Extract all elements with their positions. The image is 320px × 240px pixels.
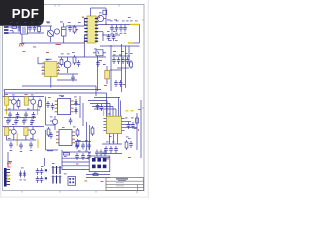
wire rail — [136, 113, 138, 150]
capacitor C53 — [99, 150, 103, 157]
transistor Q3 — [31, 99, 36, 104]
label — [8, 137, 11, 140]
capacitor C2 — [68, 25, 72, 32]
label (red) — [123, 83, 126, 86]
capacitor C24 — [24, 112, 28, 119]
capacitor C31 — [22, 118, 26, 125]
capacitor CY1 — [33, 25, 37, 32]
label (red) — [76, 28, 79, 31]
transistor Q1 (MOSFET) — [64, 61, 71, 68]
label — [64, 155, 67, 158]
capacitor C39 — [104, 146, 108, 153]
highlighted wire (yellow) — [103, 106, 105, 117]
label — [46, 21, 50, 24]
wire — [44, 25, 52, 27]
frame tick top b — [58, 4, 60, 6]
label — [31, 94, 34, 97]
wire — [90, 103, 110, 105]
diode D9 — [19, 171, 22, 178]
label — [47, 22, 50, 25]
label (red) — [25, 93, 28, 96]
wire — [28, 25, 45, 27]
label — [30, 123, 33, 126]
bus wire — [5, 92, 107, 94]
ic U1 pins left — [42, 64, 45, 74]
label (red) — [138, 129, 139, 130]
capacitor C21 — [119, 80, 123, 87]
label — [125, 117, 128, 120]
capacitor C13 — [123, 25, 127, 32]
diode D5 — [74, 99, 77, 106]
frame tick right b — [142, 107, 144, 109]
ground — [20, 151, 23, 153]
capacitor C5 — [77, 60, 81, 67]
label — [106, 141, 109, 144]
capacitor C26 — [46, 101, 50, 108]
label — [116, 20, 119, 23]
label — [12, 123, 15, 126]
ic U1 label — [46, 58, 52, 61]
label — [27, 108, 30, 111]
resistor R19 — [47, 127, 50, 137]
label — [119, 54, 122, 57]
label — [61, 53, 64, 56]
capacitor C43 — [75, 143, 79, 150]
varistor RV1 — [54, 29, 59, 34]
label — [108, 113, 111, 116]
capacitor C54 — [103, 150, 107, 157]
connector J1 (AC inlet) — [4, 27, 9, 33]
diode D12 — [45, 177, 47, 179]
label — [126, 20, 129, 23]
ic U6 body — [58, 99, 71, 115]
label — [85, 150, 88, 153]
wire — [10, 30, 13, 32]
ground — [30, 150, 33, 152]
label — [107, 19, 111, 22]
title block line — [106, 186, 144, 188]
highlighted wire (yellow) — [37, 139, 39, 148]
wire — [139, 25, 141, 44]
label — [41, 165, 44, 168]
label — [10, 21, 13, 24]
wire — [58, 56, 106, 58]
ic U9 label — [47, 149, 53, 152]
label — [31, 22, 34, 25]
highlighted wire (yellow) — [16, 133, 18, 146]
label — [21, 167, 24, 170]
wire — [50, 77, 52, 88]
label (red) — [101, 180, 104, 183]
resistor R14 — [76, 139, 79, 148]
wire — [86, 122, 88, 150]
label — [135, 20, 138, 23]
capacitor C28 — [69, 118, 73, 125]
svg-text:PDF: PDF — [12, 6, 39, 21]
header P1 — [52, 166, 62, 174]
label (red) — [128, 156, 131, 159]
wire — [46, 124, 56, 126]
title block divider — [137, 184, 139, 190]
transformer T1 secondary winding — [95, 19, 98, 42]
capacitor C11 — [115, 25, 119, 32]
label — [121, 50, 124, 53]
wire — [95, 86, 97, 96]
highlighted wire (yellow) — [130, 24, 140, 26]
diode D10 — [23, 171, 26, 178]
ic U1 pin numbers (red) — [43, 62, 60, 73]
capacitor C27 — [51, 103, 55, 110]
ground — [120, 32, 123, 34]
wire — [57, 79, 77, 81]
highlighted tick (yellow) — [131, 110, 134, 112]
label — [122, 20, 125, 23]
wire rail — [140, 100, 142, 158]
label (red) — [46, 51, 49, 54]
label (red) — [56, 43, 59, 46]
wire — [94, 157, 110, 159]
wire — [125, 127, 137, 129]
connector block outline — [89, 156, 110, 172]
capacitor C48 — [87, 153, 91, 160]
capacitor C50 — [96, 103, 100, 110]
label (red) — [8, 166, 11, 169]
label — [134, 127, 137, 130]
capacitor C12 — [119, 25, 123, 32]
label — [78, 150, 81, 153]
page right edge — [148, 0, 149, 198]
polarity dot (red) — [99, 16, 101, 18]
capacitor C58 — [40, 176, 44, 183]
wire — [83, 43, 85, 57]
label — [24, 21, 27, 24]
label — [109, 39, 112, 42]
capacitor C29 — [6, 118, 10, 125]
label (red) — [104, 84, 107, 87]
diode D2 (snubber) — [103, 10, 107, 14]
page background — [0, 0, 149, 198]
wire — [5, 109, 41, 111]
label (red) — [33, 46, 36, 49]
capacitor C37 — [127, 122, 131, 129]
capacitor C33 — [9, 142, 13, 149]
page left edge — [0, 0, 1, 198]
diode D11 — [45, 169, 47, 171]
frame tick bottom a — [21, 191, 23, 193]
ic U1 (PWM) body — [45, 62, 57, 77]
resistor R6 — [73, 55, 76, 65]
ic U5 (shunt ref, yellow) — [24, 97, 28, 106]
ic U6 label — [59, 94, 64, 97]
label — [99, 59, 102, 62]
label — [103, 63, 106, 66]
label — [20, 179, 22, 182]
ic U1 pins right — [57, 64, 60, 74]
bus wire — [62, 161, 89, 163]
label — [50, 116, 53, 119]
resistor R11 — [17, 99, 20, 109]
wire — [28, 32, 45, 34]
junction (red) — [95, 89, 96, 90]
ground — [9, 119, 12, 121]
label — [130, 20, 133, 23]
wire — [97, 56, 99, 91]
capacitor C23 — [16, 112, 20, 119]
ground — [25, 119, 28, 121]
wire — [3, 126, 44, 128]
resistor R18 (horizontal) — [64, 153, 70, 155]
wire — [3, 96, 44, 98]
highlighted wire (yellow) — [5, 105, 7, 114]
capacitor C25 — [32, 112, 36, 119]
capacitor C42 — [129, 141, 133, 148]
wire — [60, 73, 78, 75]
bus wire — [62, 157, 89, 159]
wire — [7, 139, 37, 141]
resistor R13 — [76, 128, 79, 137]
wire — [66, 25, 84, 27]
label — [128, 16, 131, 19]
ground — [115, 32, 118, 34]
ground — [111, 32, 114, 34]
highlighted wire (yellow) — [128, 42, 134, 44]
title block outer — [106, 178, 144, 191]
resistor R15 — [136, 116, 139, 125]
frame tick top a — [54, 4, 56, 6]
wire — [92, 106, 113, 108]
capacitor C49 — [96, 60, 100, 67]
connector J2 body — [4, 168, 7, 187]
label — [68, 21, 71, 24]
bus wire — [5, 89, 102, 91]
capacitor C46 — [75, 153, 79, 160]
wire rail — [125, 46, 127, 88]
capacitor C41 — [114, 146, 118, 153]
label — [130, 52, 133, 55]
label — [39, 21, 42, 24]
wire — [120, 101, 122, 117]
ic U6 pins left — [55, 101, 58, 112]
wire — [125, 121, 131, 123]
wire — [82, 103, 84, 126]
capacitor C38 — [131, 122, 135, 129]
ground — [16, 120, 19, 122]
wire — [105, 15, 107, 25]
wire — [112, 55, 130, 57]
label — [30, 137, 33, 140]
capacitor C32 — [30, 118, 34, 125]
wire — [112, 107, 114, 117]
label — [85, 139, 88, 142]
label — [107, 30, 110, 33]
highlighted tick (yellow) — [126, 110, 129, 112]
transistor Q6 — [31, 129, 36, 134]
bus wire — [22, 85, 96, 87]
wire — [44, 158, 46, 166]
capacitor C14 — [107, 34, 111, 41]
resistor R10 — [130, 60, 133, 69]
wire — [25, 136, 27, 140]
polarity dot (red) — [82, 16, 84, 18]
capacitor C18 — [121, 57, 125, 64]
diode D6 — [74, 107, 77, 114]
wire — [103, 34, 120, 36]
connector J2 terminals (yellow) — [7, 174, 12, 177]
title row text — [116, 181, 124, 184]
capacitor C34 — [19, 143, 23, 150]
label — [131, 117, 134, 120]
bus wire — [62, 165, 89, 167]
capacitor C45 — [87, 143, 91, 150]
capacitor C40 — [109, 146, 113, 153]
wire — [9, 32, 21, 34]
wire — [110, 45, 112, 91]
header P2 — [52, 176, 62, 184]
ic U8 (yellow) — [24, 127, 28, 136]
fuse F1 — [12, 26, 17, 29]
capacitor C16 — [112, 57, 116, 64]
frame tick bottom c — [95, 191, 97, 193]
ic U4 (shunt ref, yellow) — [5, 97, 9, 106]
resistor R17 (horizontal) — [93, 174, 98, 176]
wire rail — [121, 44, 123, 92]
wire — [106, 101, 108, 117]
capacitor C57 — [36, 176, 40, 183]
wire — [117, 67, 129, 69]
wire — [9, 26, 13, 28]
wire — [83, 35, 85, 43]
transformer T1 core — [87, 16, 96, 43]
label — [46, 59, 49, 62]
frame tick right a — [142, 19, 144, 21]
label (red) — [106, 158, 109, 161]
wire — [94, 97, 120, 99]
frame tick left a — [3, 89, 5, 91]
capacitor C1 (bulk) — [62, 23, 67, 43]
bus wire — [62, 169, 89, 171]
wire rail — [128, 46, 130, 66]
highlighted wire (yellow) — [37, 104, 39, 115]
label (red) — [23, 50, 26, 53]
label — [48, 96, 51, 99]
label — [52, 162, 55, 165]
label — [94, 48, 97, 51]
part X1 (bridge) — [68, 177, 76, 186]
transistor Q5 — [11, 129, 16, 134]
wire — [4, 90, 6, 97]
wire — [105, 8, 107, 15]
capacitor C20 — [114, 80, 118, 87]
label — [126, 136, 129, 139]
wire — [21, 34, 23, 43]
capacitor C47 — [81, 153, 85, 160]
capacitor CX2 — [28, 25, 32, 32]
wire — [118, 98, 120, 117]
wire — [117, 134, 119, 144]
label — [99, 12, 102, 15]
wire — [83, 19, 85, 27]
wire — [75, 151, 91, 153]
label (red) — [85, 180, 88, 183]
junction (red) — [76, 29, 77, 30]
ground — [124, 32, 127, 34]
wire — [100, 45, 140, 47]
resistor R5 — [60, 58, 63, 67]
wire — [109, 134, 111, 144]
wire — [75, 141, 91, 143]
ic U10 (controller, yellow) body — [106, 116, 121, 133]
wire — [109, 104, 111, 117]
label — [128, 137, 131, 140]
label — [78, 21, 81, 24]
wire — [17, 26, 21, 28]
label (red) — [58, 43, 61, 46]
wire — [113, 134, 115, 144]
transistor Q2 — [11, 99, 16, 104]
wire — [90, 8, 92, 16]
connector J2 pins — [7, 170, 10, 185]
label — [8, 108, 11, 111]
wire — [134, 42, 140, 44]
wire — [74, 104, 80, 106]
label — [110, 20, 113, 23]
wire — [88, 100, 107, 102]
capacitor C56 — [40, 168, 44, 175]
wire — [86, 177, 110, 179]
capacitor C17 — [117, 57, 121, 64]
label — [138, 108, 141, 111]
resistor R1 — [38, 25, 41, 34]
label — [113, 50, 116, 53]
title block line — [106, 180, 144, 182]
wire — [98, 31, 103, 33]
capacitor C36 — [49, 132, 53, 139]
label — [24, 179, 26, 182]
label — [112, 141, 115, 144]
pdf badge — [0, 0, 44, 26]
label — [109, 135, 112, 138]
label — [113, 54, 116, 57]
resistor R2 — [73, 25, 76, 34]
wire — [38, 63, 42, 65]
chassis ground (red) — [7, 162, 12, 165]
label — [72, 51, 75, 54]
wire — [61, 150, 63, 170]
chassis ground (red) — [19, 44, 25, 47]
capacitor CX1 — [18, 26, 19, 32]
wire — [106, 93, 108, 116]
capacitor C51 — [100, 104, 104, 111]
ic U9 pins left — [56, 132, 59, 143]
wire — [89, 125, 91, 150]
capacitor C55 — [36, 168, 40, 175]
ground — [32, 120, 35, 122]
capacitor C6 — [71, 75, 75, 82]
ic U6 pins right — [71, 101, 74, 112]
label (red) — [86, 157, 89, 160]
page bottom edge — [0, 197, 149, 199]
diode D1 (output) — [97, 15, 103, 21]
label — [113, 30, 116, 33]
label — [88, 152, 91, 155]
ic U7 (yellow) — [5, 127, 9, 136]
wire — [4, 117, 36, 119]
wire — [6, 136, 8, 140]
choke L1 (common-mode) — [21, 26, 28, 35]
label — [94, 172, 97, 175]
junction (red) — [84, 42, 85, 43]
wire output bus — [98, 24, 130, 26]
